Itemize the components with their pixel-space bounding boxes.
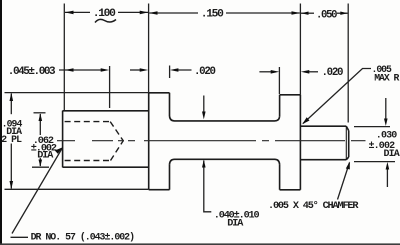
collar1 left face — [148, 93, 150, 190]
arrow .062 top — [39, 113, 43, 121]
arrow .150 left — [149, 11, 158, 15]
svg-text:MAX R: MAX R — [374, 72, 399, 83]
extension line collar1 left (.100/.150) — [148, 4, 150, 93]
hole cone lower — [111, 141, 124, 161]
extension line .094 top — [5, 92, 149, 94]
dim line .040 upper — [203, 96, 205, 115]
dim line .100 — [65, 11, 90, 13]
svg-text:.030: .030 — [376, 130, 397, 141]
center line — [57, 140, 366, 142]
arrow .020c2 left — [271, 70, 280, 74]
collar1 right face — [169, 93, 171, 190]
dim line .045 — [59, 69, 101, 71]
leader DR NO 57 tick — [11, 236, 29, 238]
arrow .094 bottom — [10, 181, 14, 189]
svg-text:.050: .050 — [316, 10, 337, 22]
dim line .040 lower leader — [204, 161, 212, 212]
collar1 bottom edge — [149, 189, 170, 191]
collar2 bottom edge — [280, 189, 301, 191]
arrow .050 right — [340, 12, 348, 15]
svg-text:.020: .020 — [322, 67, 344, 79]
arrow .020c1 right — [170, 68, 179, 72]
body bottom edge — [63, 166, 149, 168]
dim line .062 upper — [39, 114, 41, 135]
svg-text:DR NO. 57 (.043±.002): DR NO. 57 (.043±.002) — [31, 232, 135, 243]
extension line tail end (.050) — [347, 4, 349, 123]
svg-text:.045±.003: .045±.003 — [8, 66, 56, 78]
dim line .020 collar2 right arrow — [306, 71, 318, 73]
border bottom edge — [0, 243, 400, 245]
arrow .094 top — [10, 93, 14, 101]
extension line .030 bottom — [354, 161, 395, 163]
border left bar — [0, 0, 2, 245]
tail top edge — [300, 125, 346, 127]
dim line .030 lower — [386, 167, 388, 187]
tick .062 top — [34, 112, 46, 114]
arrow .100 right — [140, 11, 149, 15]
tail chamfer bottom — [346, 157, 348, 160]
leader chamfer — [338, 163, 350, 200]
dim line .062 lower — [39, 158, 41, 166]
part outline — [63, 93, 349, 190]
arrow .020c2 right — [301, 70, 310, 74]
svg-text:DIA: DIA — [227, 218, 244, 229]
hole top hidden line — [65, 121, 111, 123]
extension line left face (.100 left) — [63, 4, 65, 111]
collar1 top edge — [149, 92, 170, 94]
arrow .040 bottom — [202, 160, 206, 168]
tail bottom edge — [300, 159, 346, 161]
arrowheads — [10, 11, 390, 190]
arrow chamfer — [346, 162, 350, 170]
arrow DR leader — [55, 147, 63, 154]
squiggle under .100 — [95, 19, 116, 22]
arrow .100 left — [65, 11, 74, 15]
leader DR NO 57 — [12, 149, 62, 234]
hole cone upper — [110, 122, 123, 141]
extension line collar1 right top — [169, 66, 171, 79]
dim line .020 collar1 left arrow — [130, 69, 143, 71]
svg-text:.150: .150 — [201, 9, 224, 21]
arrow .040 top — [202, 112, 206, 120]
tail chamfer edge line — [345, 126, 347, 160]
body top edge — [63, 110, 149, 112]
leader .005 MAX R — [303, 69, 371, 124]
hole bottom hidden line — [65, 160, 111, 162]
body left face — [62, 111, 64, 168]
dim line .094 upper — [10, 94, 12, 115]
svg-text:.020: .020 — [194, 66, 216, 78]
shaft top edge with fillets — [170, 116, 280, 121]
arrow .005maxr — [302, 117, 309, 124]
shaft bottom edge with fillets — [170, 159, 280, 164]
dim line .150 — [149, 12, 198, 14]
extension line .045 right — [109, 66, 111, 108]
collar2 top edge — [280, 94, 301, 96]
arrow .150 right — [292, 11, 301, 15]
svg-text:DIA: DIA — [384, 149, 400, 160]
extension line collar2 right (.150/.050) — [299, 4, 301, 95]
svg-text:.005 X 45° CHAMFER: .005 X 45° CHAMFER — [268, 200, 359, 212]
tail end face — [348, 131, 350, 158]
dim line .020 collar2 left arrow — [259, 71, 274, 73]
collar2 right face — [299, 95, 301, 190]
arrow .062 bottom — [39, 160, 43, 167]
svg-text:DIA: DIA — [37, 150, 54, 161]
arrow .020c1 left — [140, 68, 149, 72]
dim line .030 upper — [385, 98, 387, 121]
extension line .094 bottom — [5, 188, 149, 190]
arrow .045 left — [65, 68, 74, 72]
arrow .030 bottom — [386, 162, 390, 170]
extension line .030 top — [354, 126, 390, 128]
arrow .045 right — [101, 68, 110, 72]
svg-text:2 PL: 2 PL — [1, 134, 22, 145]
dim line .094 lower — [10, 144, 12, 189]
tail chamfer top — [346, 126, 348, 130]
arrow .050 left — [301, 12, 309, 15]
dim line .020 collar1 right arrow — [175, 69, 192, 71]
svg-text:.100: .100 — [93, 8, 116, 20]
hidden drill hole — [65, 122, 124, 161]
dim line .050 — [301, 12, 314, 14]
tick .062 bottom — [32, 166, 49, 168]
collar2 left face — [279, 95, 281, 190]
arrow .030 top — [384, 119, 388, 127]
extension line collar2 left top — [278, 67, 280, 94]
